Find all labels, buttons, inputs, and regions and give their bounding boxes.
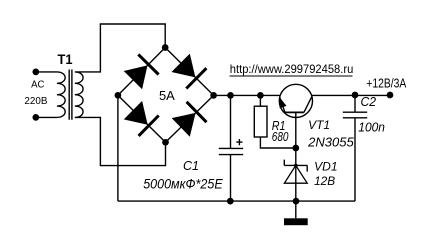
svg-text:5000мкФ*25Е: 5000мкФ*25Е xyxy=(143,175,223,191)
svg-text:VD1: VD1 xyxy=(314,160,338,174)
svg-text:12В: 12В xyxy=(314,174,335,188)
svg-text:680: 680 xyxy=(272,129,289,144)
svg-text:T1: T1 xyxy=(58,51,73,67)
svg-text:AC: AC xyxy=(31,80,44,91)
svg-text:C2: C2 xyxy=(361,95,377,109)
svg-text:2N3055: 2N3055 xyxy=(307,134,354,149)
svg-text:VT1: VT1 xyxy=(308,118,330,132)
svg-text:http://www.299792458.ru: http://www.299792458.ru xyxy=(230,62,353,76)
svg-text:100n: 100n xyxy=(358,121,385,135)
svg-text:5A: 5A xyxy=(159,88,175,103)
svg-text:C1: C1 xyxy=(183,158,199,173)
svg-text:+12В/3А: +12В/3А xyxy=(366,76,407,90)
svg-text:220В: 220В xyxy=(24,96,47,107)
